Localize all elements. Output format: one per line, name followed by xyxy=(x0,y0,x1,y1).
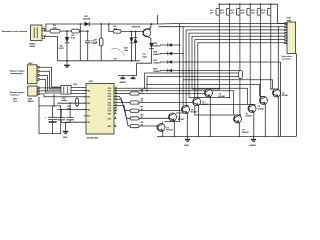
wire from B1 bottom pin down xyxy=(45,37,58,61)
resistor R7 + wire to T3 base xyxy=(114,99,182,112)
svg-text:XT1: XT1 xyxy=(87,116,90,118)
capacitor C2 (electrolytic) xyxy=(85,30,97,61)
top rail +12V xyxy=(219,4,287,23)
wire: IC P11 fork lower to R12 xyxy=(147,77,239,91)
DA1 wires converge right-down xyxy=(39,67,61,93)
transistor T3 xyxy=(182,106,199,137)
wire: connector gnd drop xyxy=(280,62,282,136)
wire: feed to T8 base xyxy=(146,84,260,96)
svg-text:12V: 12V xyxy=(230,13,234,15)
caps C5 C6 at IC left bottom xyxy=(57,102,86,138)
lamp HL3 xyxy=(230,3,241,16)
lamp HL4 xyxy=(241,3,252,16)
wire: HL1 to T5 collector xyxy=(212,17,219,90)
lamp HL6 xyxy=(261,3,272,16)
svg-text:BC547: BC547 xyxy=(178,119,185,121)
svg-text:GND: GND xyxy=(63,137,68,139)
svg-text:AGND: AGND xyxy=(250,144,257,147)
svg-text:1N4007: 1N4007 xyxy=(153,45,161,47)
wire R1 to R2 xyxy=(60,30,72,32)
svg-text:МВН1: МВН1 xyxy=(28,101,35,103)
left module DA1 xyxy=(10,62,39,84)
connector CON right xyxy=(282,18,296,61)
suppressor diode pair VD3/VD4 xyxy=(124,31,138,62)
ground AGND (right) xyxy=(250,136,257,146)
wire: HL6 to T9 collector xyxy=(271,17,279,90)
wire R2 to C2 node xyxy=(80,30,88,32)
svg-text:BC547: BC547 xyxy=(202,104,209,106)
ground GND (left) xyxy=(184,136,190,146)
zener diode VD2 xyxy=(59,30,70,61)
resistor R4 xyxy=(113,26,121,33)
wire: IC P10 to T7 base xyxy=(114,88,248,104)
svg-text:P15: P15 xyxy=(108,102,111,104)
lamp HL1 xyxy=(210,3,221,16)
svg-text:6: 6 xyxy=(115,125,116,127)
svg-text:P16: P16 xyxy=(108,105,111,107)
wire: connector pin4 bus to T4 collector xyxy=(189,33,287,97)
resistor R2 xyxy=(71,29,80,40)
resistor R9 + wire to T1 base xyxy=(114,105,157,127)
svg-text:AGND: AGND xyxy=(120,81,127,84)
wire: connector pin1 bus to T1 collector xyxy=(165,24,288,122)
resistor R5 + wire to T5 base xyxy=(114,89,205,95)
svg-text:P13: P13 xyxy=(108,96,111,98)
wire: connector pin6 bus to T6 collector xyxy=(195,40,287,116)
diode VD5 under T1 emitter + wire to AGND xyxy=(137,43,154,76)
resistor R3 xyxy=(94,23,103,61)
IC right pins xyxy=(114,88,117,126)
wire: power section 0V bottom rail xyxy=(57,60,140,62)
vertical from rail A to R4 xyxy=(108,23,110,25)
svg-text:11: 11 xyxy=(115,109,117,111)
ground (power section) xyxy=(64,60,70,68)
wire: IC P10 fork upper to R12 xyxy=(145,73,239,88)
diode VD7 input stub xyxy=(153,52,184,56)
lamp HL2 xyxy=(220,3,231,16)
svg-text:12V: 12V xyxy=(220,13,224,15)
transistor T9 xyxy=(273,26,290,136)
DA2 wires to IC xyxy=(39,88,86,97)
svg-text:P18: P18 xyxy=(108,111,111,113)
svg-text:100n: 100n xyxy=(142,56,148,58)
svg-text:вход: вход xyxy=(287,20,292,22)
crystal box between DA2 and IC xyxy=(61,84,86,102)
svg-text:1N4007: 1N4007 xyxy=(153,62,161,64)
svg-text:P31: P31 xyxy=(87,97,90,99)
wire: HL5 to T8 collector xyxy=(261,17,266,97)
svg-text:BC547: BC547 xyxy=(166,130,173,132)
IC left pins xyxy=(84,91,87,123)
wire from B1 top pin to rail A xyxy=(45,24,158,30)
svg-text:P11: P11 xyxy=(108,91,111,93)
AGND symbols above-right of IC xyxy=(118,76,137,85)
diode VD8 input stub + long wire xyxy=(153,60,281,64)
wire: B1 pin1 to R1 xyxy=(45,30,51,32)
wire: HL4 to T7 collector xyxy=(250,17,254,105)
curved wire mark near 0V rail xyxy=(112,48,125,55)
junction dots (collector nodes, rail A) xyxy=(151,23,241,116)
resistor R1 xyxy=(50,25,60,33)
svg-text:1N4007: 1N4007 xyxy=(153,54,161,56)
svg-text:BC547: BC547 xyxy=(191,112,198,114)
svg-text:XT2: XT2 xyxy=(108,118,111,120)
bottom-left sub-circuit loop SB1 xyxy=(13,94,61,134)
svg-text:BC547: BC547 xyxy=(258,108,265,110)
node: R2 output / riser x80.3 with junctions xyxy=(79,23,81,25)
svg-text:P30: P30 xyxy=(87,90,90,92)
svg-text:Тест: Тест xyxy=(13,101,18,103)
svg-text:температура: температура xyxy=(10,73,24,75)
svg-text:Включва се към звънеца: Включва се към звънеца xyxy=(2,31,28,33)
transistor T7 xyxy=(246,105,257,137)
IC U1 microcontroller xyxy=(86,81,114,140)
svg-text:P12: P12 xyxy=(108,93,111,95)
svg-text:AT89C2051: AT89C2051 xyxy=(87,136,99,139)
svg-text:05SB: 05SB xyxy=(30,46,36,48)
transistor T2 xyxy=(169,113,186,136)
svg-text:12V: 12V xyxy=(241,13,245,15)
svg-text:GND: GND xyxy=(184,145,189,147)
wire: HL2 to T4 collector xyxy=(200,17,230,98)
svg-text:P19: P19 xyxy=(108,113,111,115)
svg-text:ВС557А: ВС557А xyxy=(132,25,141,28)
wire: connector pin3 bus to T3 collector xyxy=(186,30,287,106)
wire: connector pin2 bus to T2 collector xyxy=(176,27,287,113)
IC pin wire joins cap gnd node xyxy=(66,121,86,123)
input module B1 xyxy=(2,25,46,48)
svg-text:4MHz: 4MHz xyxy=(62,100,68,102)
diode VD9 input stub + wire to R12 xyxy=(153,69,241,73)
svg-text:влажност: влажност xyxy=(10,95,20,97)
rail A join to bus xyxy=(157,15,183,27)
svg-text:BC547: BC547 xyxy=(282,95,289,97)
svg-text:8: 8 xyxy=(115,117,116,119)
svg-text:P14: P14 xyxy=(108,99,111,101)
svg-text:P32: P32 xyxy=(87,103,90,105)
diode VD6 input stub xyxy=(153,43,180,47)
svg-text:9: 9 xyxy=(115,112,116,114)
svg-text:1N4007: 1N4007 xyxy=(153,71,161,73)
svg-text:BC547: BC547 xyxy=(242,132,249,134)
wire: connector pin7 bus to T7 collector xyxy=(198,43,287,105)
svg-text:12V: 12V xyxy=(261,13,265,15)
wire: IC P11 to T6 base xyxy=(114,91,234,115)
svg-text:P37: P37 xyxy=(87,122,90,124)
svg-text:BC547: BC547 xyxy=(219,96,226,98)
svg-text:12V: 12V xyxy=(210,13,214,15)
transistor T8 xyxy=(258,97,268,137)
transistor T1 xyxy=(157,122,174,137)
transistor T1 (PNP) top xyxy=(121,24,151,43)
svg-text:12V: 12V xyxy=(251,13,255,15)
resistor R12 pull-up xyxy=(239,71,243,79)
wire: connector pin5 bus to T5 collector xyxy=(192,36,287,89)
diode VD1 on rail A xyxy=(83,16,91,26)
svg-text:DD1: DD1 xyxy=(89,81,94,83)
svg-text:1N4148: 1N4148 xyxy=(83,19,91,21)
lamp HL5 xyxy=(251,3,262,16)
wire: HL3 to T6 collector xyxy=(240,17,241,116)
wire: feed to T9 base xyxy=(183,80,273,89)
resistor R8 + wire to T2 base xyxy=(114,103,169,120)
svg-text:P33: P33 xyxy=(87,109,90,111)
left module DA2 xyxy=(10,86,39,103)
transistor T4 xyxy=(193,98,210,137)
transistor T6 xyxy=(234,115,250,136)
transistor T5 xyxy=(205,89,226,136)
wire: emitter ground rail + right edge riser xyxy=(157,54,297,137)
svg-text:BC547: BC547 xyxy=(246,116,253,118)
svg-text:C4V7: C4V7 xyxy=(59,48,65,50)
resistor R6 + wire to T4 base xyxy=(114,96,193,104)
resistor R11 before IC xyxy=(76,97,79,108)
svg-text:100n: 100n xyxy=(67,108,71,110)
node fork junctions xyxy=(144,88,146,90)
svg-text:сигнализ.: сигнализ. xyxy=(282,59,292,61)
